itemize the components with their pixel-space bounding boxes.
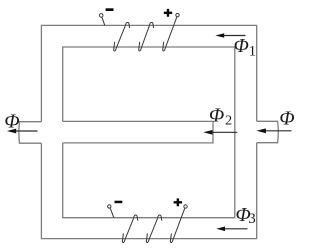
svg-text:1: 1 bbox=[249, 44, 257, 60]
core outer boundary lower part bbox=[41, 143, 256, 239]
svg-text:Φ: Φ bbox=[279, 108, 294, 130]
label Phi2 bbox=[209, 104, 232, 128]
svg-text:Φ: Φ bbox=[234, 35, 249, 57]
flux arrow Phi3 bbox=[216, 227, 247, 232]
W1 polarity minus bbox=[106, 8, 114, 11]
W2 polarity minus bbox=[115, 201, 123, 204]
flux arrow Phi2 (air gap) bbox=[203, 130, 237, 135]
W1 polarity plus bbox=[164, 9, 172, 17]
label Phi (left) bbox=[4, 111, 19, 133]
winding W1 positive terminal bbox=[176, 13, 179, 16]
svg-text:2: 2 bbox=[225, 113, 232, 128]
winding W2 positive terminal bbox=[184, 205, 187, 208]
label Phi (right) bbox=[279, 108, 294, 130]
label Phi3 bbox=[236, 204, 256, 227]
W2 polarity plus bbox=[174, 198, 183, 206]
core outer boundary upper part bbox=[41, 25, 256, 121]
winding W2 wire bbox=[110, 208, 185, 243]
left flux stub bbox=[19, 122, 42, 144]
svg-text:Φ: Φ bbox=[209, 104, 224, 126]
winding W1 negative terminal bbox=[99, 14, 103, 18]
svg-text:3: 3 bbox=[248, 211, 256, 227]
center limb with air-gap end cap bbox=[63, 121, 213, 142]
flux arrow Phi right bbox=[257, 128, 292, 133]
flux arrow Phi left bbox=[7, 129, 38, 134]
winding W2 negative terminal bbox=[108, 205, 111, 208]
core inner window bbox=[63, 47, 235, 218]
svg-text:Φ: Φ bbox=[4, 111, 19, 133]
label Phi1 bbox=[234, 35, 257, 60]
flux arrow Phi1 bbox=[215, 33, 245, 38]
winding W1 wire bbox=[102, 17, 177, 51]
right flux stub bbox=[257, 121, 279, 142]
